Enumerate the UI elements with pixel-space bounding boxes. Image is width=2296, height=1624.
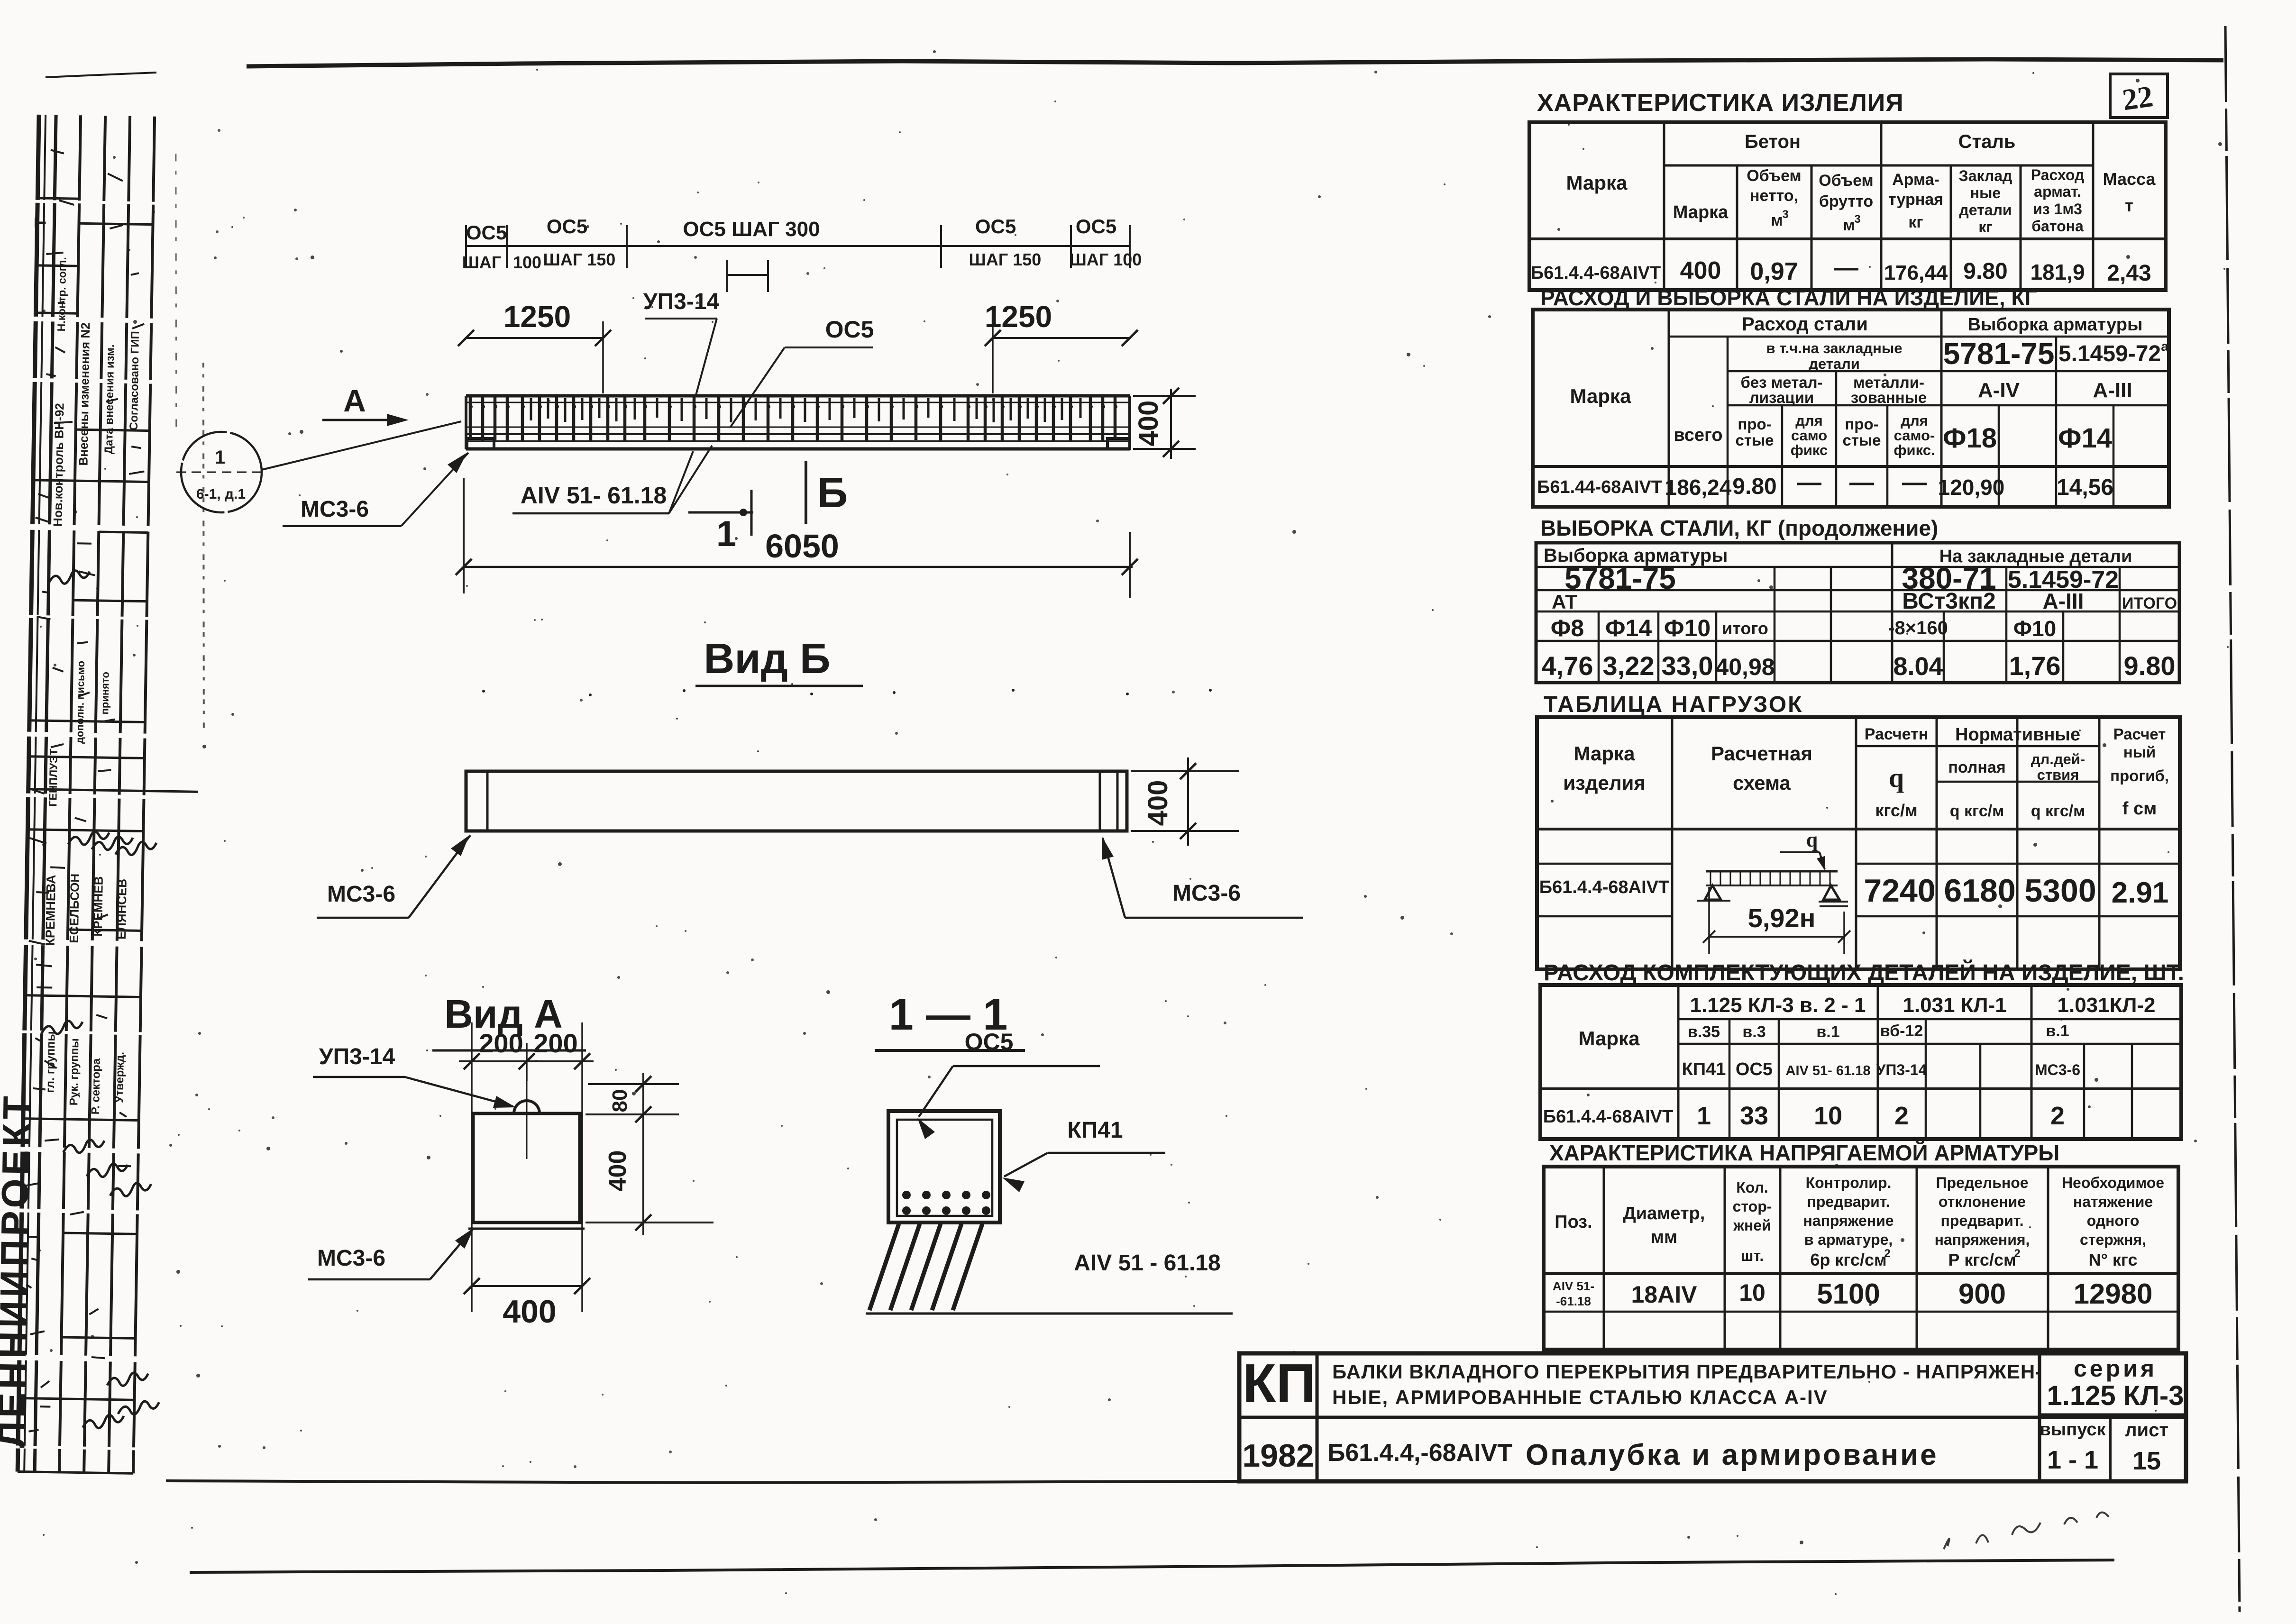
svg-text:6180: 6180 [1944, 873, 2015, 909]
svg-text:КРЕМНЕВ: КРЕМНЕВ [91, 876, 106, 937]
svg-text:Ф8: Ф8 [1551, 615, 1584, 641]
signature scribbles [68, 831, 109, 845]
svg-text:4,76: 4,76 [1542, 651, 1593, 681]
table 3 grid [1536, 543, 2179, 683]
handwritten note bottom right [1944, 1512, 2109, 1549]
svg-text:кг: кг [1908, 213, 1923, 231]
svg-text:МС3-6: МС3-6 [1172, 881, 1241, 906]
page number box 22 [2110, 74, 2168, 118]
svg-text:ОС5: ОС5 [547, 215, 587, 237]
svg-text:Марка: Марка [1579, 1027, 1640, 1049]
svg-text:лист: лист [2125, 1420, 2168, 1441]
svg-text:армат.: армат. [2034, 183, 2081, 200]
svg-text:про-: про- [1738, 415, 1771, 433]
outer bottom border line [190, 1560, 2114, 1572]
400 height dimension (elevation) [1133, 395, 1196, 397]
svg-text:в.1: в.1 [1816, 1023, 1839, 1041]
svg-text:детали: детали [1959, 201, 2012, 219]
svg-text:ствия: ствия [2037, 766, 2079, 783]
right frame border line [2225, 26, 2240, 1612]
svg-text:1.031КЛ-2: 1.031КЛ-2 [2058, 994, 2156, 1017]
svg-text:ные: ные [1970, 184, 2001, 201]
svg-text:Согласовано ГИП: Согласовано ГИП [128, 331, 142, 430]
svg-text:КП41: КП41 [1682, 1059, 1726, 1079]
svg-text:-61.18: -61.18 [1556, 1294, 1591, 1308]
svg-text:Заклад: Заклад [1959, 167, 2012, 184]
left stamp column vertical rules [18, 115, 39, 1472]
svg-text:МС3-6: МС3-6 [301, 497, 369, 522]
svg-text:ОС5: ОС5 [975, 215, 1016, 237]
400 dimension below view A [472, 1285, 582, 1287]
svg-text:ОС5: ОС5 [1076, 215, 1116, 237]
svg-text:МС3-6: МС3-6 [327, 882, 395, 907]
svg-text:2: 2 [1894, 1102, 1909, 1130]
svg-text:ОС5: ОС5 [825, 316, 874, 343]
svg-text:МС3-6: МС3-6 [317, 1246, 385, 1271]
svg-text:ВЫБОРКА СТАЛИ, КГ (продолжени: ВЫБОРКА СТАЛИ, КГ (продолжение) [1540, 516, 1938, 540]
lifting loop UP3-14 [514, 1101, 540, 1113]
svg-text:Рук. группы: Рук. группы [67, 1038, 81, 1105]
svg-text:мм: мм [1651, 1227, 1677, 1247]
svg-text:Марка: Марка [1574, 742, 1636, 765]
svg-text:1.125 КЛ-3: 1.125 КЛ-3 [2047, 1380, 2184, 1411]
svg-text:РАСХОД КОМПЛЕКТУЮЩИХ ДЕТАЛЕЙ Н: РАСХОД КОМПЛЕКТУЮЩИХ ДЕТАЛЕЙ НА ИЗДЕЛИЕ,… [1544, 959, 2184, 985]
svg-text:Ф18: Ф18 [1943, 423, 1997, 454]
svg-text:1.031 КЛ-1: 1.031 КЛ-1 [1903, 994, 2006, 1017]
svg-text:1250: 1250 [503, 300, 571, 334]
svg-text:186,24: 186,24 [1665, 475, 1732, 500]
svg-text:5.1459-72: 5.1459-72 [2058, 341, 2161, 366]
svg-text:ХАРАКТЕРИСТИКА ИЗЛЕЛИЯ: ХАРАКТЕРИСТИКА ИЗЛЕЛИЯ [1537, 89, 1904, 117]
svg-text:1982: 1982 [1242, 1438, 1314, 1474]
svg-text:Н.контр. согл.: Н.контр. согл. [55, 257, 68, 331]
svg-text:9.80: 9.80 [2124, 651, 2176, 681]
svg-text:q кгс/м: q кгс/м [1950, 802, 2004, 820]
svg-text:2: 2 [2014, 1247, 2020, 1260]
svg-text:400: 400 [503, 1294, 556, 1330]
svg-text:вб-12: вб-12 [1880, 1022, 1923, 1040]
dense text-noise dashes inside column [51, 150, 64, 153]
row of specks under title [482, 690, 485, 693]
svg-text:ШАГ 150: ШАГ 150 [969, 250, 1042, 269]
svg-text:Вид Б: Вид Б [704, 635, 830, 683]
svg-text:дополн. письмо: дополн. письмо [73, 661, 87, 744]
svg-text:А-III: А-III [2043, 589, 2084, 613]
rebar dots [902, 1191, 911, 1199]
svg-text:8.04: 8.04 [1893, 652, 1943, 681]
svg-text:стор-: стор- [1733, 1198, 1772, 1215]
svg-text:Объем: Объем [1819, 172, 1873, 190]
svg-text:176,44: 176,44 [1884, 261, 1948, 284]
table 6 grid [1544, 1167, 2178, 1350]
svg-text:для: для [1795, 412, 1822, 429]
svg-text:УП3-14: УП3-14 [643, 289, 720, 314]
svg-text:ОС5: ОС5 [965, 1029, 1014, 1055]
svg-text:6-1, д.1: 6-1, д.1 [196, 486, 246, 502]
overall 6050 dimension [464, 566, 1133, 568]
svg-text:Расчет: Расчет [2113, 725, 2166, 743]
extra speckles drawing area [243, 217, 245, 219]
svg-text:АТ: АТ [1552, 591, 1577, 613]
svg-text:АIV 51-: АIV 51- [1553, 1279, 1594, 1293]
svg-text:2: 2 [2050, 1102, 2065, 1130]
400 dimension view B [1131, 770, 1239, 772]
1250 dimension left [466, 337, 603, 339]
svg-text:стые: стые [1735, 431, 1774, 449]
svg-text:про-: про- [1845, 415, 1878, 433]
svg-text:7240: 7240 [1864, 873, 1935, 909]
svg-text:900: 900 [1958, 1278, 2006, 1310]
svg-text:Объем: Объем [1747, 167, 1801, 185]
svg-text:400: 400 [604, 1150, 631, 1192]
section outer square [888, 1111, 1000, 1223]
svg-text:1,76: 1,76 [2009, 651, 2061, 681]
svg-text:2: 2 [1884, 1247, 1890, 1260]
svg-text:дл.дей-: дл.дей- [2031, 751, 2085, 767]
svg-text:принято: принято [99, 672, 111, 715]
svg-text:ЕЛЯНСЕВ: ЕЛЯНСЕВ [114, 879, 129, 940]
embedded plate right corner [1107, 438, 1130, 449]
svg-text:ХАРАКТЕРИСТИКА НАПРЯГАЕМОЙ АРМ: ХАРАКТЕРИСТИКА НАПРЯГАЕМОЙ АРМАТУРЫ [1549, 1140, 2059, 1165]
svg-text:—: — [1902, 469, 1927, 496]
svg-text:Б: Б [817, 469, 848, 517]
svg-text:ОС5: ОС5 [466, 221, 507, 244]
svg-text:1 - 1: 1 - 1 [2047, 1446, 2098, 1474]
svg-text:Б61.4.4,-68АIVТ: Б61.4.4,-68АIVТ [1327, 1439, 1512, 1467]
svg-text:выпуск: выпуск [2040, 1420, 2106, 1440]
svg-text:Р кгс/см: Р кгс/см [1948, 1250, 2016, 1269]
svg-text:детали: детали [1809, 356, 1860, 372]
svg-text:т: т [2125, 196, 2133, 215]
svg-text:КП: КП [1243, 1352, 1316, 1414]
svg-text:33,0: 33,0 [1662, 651, 1713, 681]
svg-text:отклонение: отклонение [1939, 1193, 2026, 1210]
svg-text:N° кгс: N° кгс [2089, 1250, 2138, 1269]
svg-text:А-IV: А-IV [1978, 379, 2020, 402]
svg-text:Диаметр,: Диаметр, [1623, 1204, 1705, 1223]
svg-text:Кол.: Кол. [1736, 1179, 1768, 1196]
svg-text:ТАБЛИЦА НАГРУЗОК: ТАБЛИЦА НАГРУЗОК [1544, 692, 1803, 717]
stirrups [469, 397, 472, 440]
noisy streak right of stamp column [198, 363, 210, 728]
svg-text:фикс: фикс [1791, 442, 1828, 458]
svg-text:Бетон: Бетон [1745, 131, 1801, 152]
svg-text:—: — [1834, 254, 1858, 282]
svg-text:напряжение: напряжение [1803, 1212, 1894, 1229]
svg-text:Выборка арматуры: Выборка арматуры [1968, 315, 2143, 335]
svg-text:18АIV: 18АIV [1631, 1281, 1698, 1308]
svg-text:1.125 КЛ-3 в. 2 - 1: 1.125 КЛ-3 в. 2 - 1 [1690, 994, 1866, 1017]
svg-text:Поз.: Поз. [1555, 1212, 1592, 1232]
svg-text:одного: одного [2087, 1212, 2140, 1229]
svg-text:м: м [1771, 211, 1783, 229]
svg-text:2.91: 2.91 [2112, 876, 2169, 909]
svg-text:Сталь: Сталь [1958, 131, 2016, 152]
svg-text:турная: турная [1888, 191, 1943, 209]
svg-text:в.1: в.1 [2046, 1022, 2069, 1040]
svg-text:3,22: 3,22 [1603, 651, 1655, 681]
svg-text:Арма-: Арма- [1892, 171, 1939, 189]
svg-text:схема: схема [1733, 772, 1791, 794]
svg-text:шт.: шт. [1741, 1247, 1764, 1264]
200 200 dimension [459, 1060, 594, 1062]
svg-text:в т.ч.на закладные: в т.ч.на закладные [1766, 340, 1902, 356]
table 5 grid [1540, 985, 2181, 1139]
svg-text:Нормативные: Нормативные [1955, 725, 2080, 745]
svg-text:Расчетн: Расчетн [1865, 725, 1929, 743]
svg-text:Ф10: Ф10 [2013, 616, 2056, 641]
svg-text:напряжения,: напряжения, [1935, 1231, 2030, 1248]
svg-text:ЕСЕЛЬСОН: ЕСЕЛЬСОН [67, 874, 82, 943]
svg-text:22: 22 [2120, 79, 2155, 117]
svg-text:само: само [1791, 427, 1827, 444]
svg-text:натяжение: натяжение [2073, 1193, 2153, 1210]
OC5 spacing dimension line [466, 245, 1130, 247]
svg-text:Марка: Марка [1566, 172, 1628, 194]
svg-text:3: 3 [1854, 213, 1860, 226]
80 dimension [588, 1083, 679, 1085]
svg-text:ОС5 ШАГ 300: ОС5 ШАГ 300 [683, 218, 820, 241]
svg-text:3: 3 [1782, 208, 1788, 221]
embedded plate MC3-6 left corner [467, 438, 494, 449]
svg-text:Марка: Марка [1673, 202, 1729, 222]
prestressing strands [869, 1224, 899, 1310]
svg-text:брутто: брутто [1819, 192, 1873, 210]
svg-text:Внесены изменения N2: Внесены изменения N2 [76, 322, 93, 466]
svg-text:ШАГ: ШАГ [462, 253, 502, 272]
svg-text:Б61.44-68АIVТ: Б61.44-68АIVТ [1537, 477, 1662, 497]
400 dimension right of view A [585, 1113, 679, 1115]
svg-text:200: 200 [533, 1028, 577, 1058]
svg-text:в арматуре,: в арматуре, [1804, 1231, 1893, 1248]
svg-text:Б61.4.4-68АIVТ: Б61.4.4-68АIVТ [1539, 877, 1669, 897]
svg-text:ШАГ 100: ШАГ 100 [1070, 250, 1142, 269]
svg-text:Необходимое: Необходимое [2062, 1174, 2164, 1191]
svg-text:предварит.: предварит. [1807, 1193, 1890, 1210]
table 4 grid [1537, 717, 2180, 969]
svg-text:Ф10: Ф10 [1664, 615, 1711, 641]
svg-text:АIV 51- 61.18: АIV 51- 61.18 [1786, 1063, 1871, 1078]
svg-text:5300: 5300 [2024, 873, 2096, 909]
svg-text:фикс.: фикс. [1894, 442, 1935, 458]
beam elevation outline [466, 394, 1130, 398]
svg-text:120,90: 120,90 [1938, 475, 2005, 500]
svg-text:ШАГ 150: ШАГ 150 [543, 250, 616, 269]
svg-text:Расход стали: Расход стали [1742, 314, 1868, 335]
svg-text:КРЕМНЕВА: КРЕМНЕВА [43, 875, 58, 946]
svg-text:УП3-14: УП3-14 [319, 1044, 395, 1069]
svg-text:А: А [343, 383, 366, 418]
svg-text:—: — [1797, 469, 1821, 496]
top-left frame stub [46, 73, 156, 77]
svg-text:1: 1 [716, 514, 736, 554]
svg-text:АIV 51 - 61.18: АIV 51 - 61.18 [1074, 1250, 1221, 1276]
svg-text:12980: 12980 [2074, 1278, 2153, 1310]
extension lines view A [471, 1022, 473, 1312]
svg-text:2,43: 2,43 [2107, 261, 2151, 286]
svg-text:итого: итого [1722, 619, 1768, 638]
svg-text:АIV 51- 61.18: АIV 51- 61.18 [521, 482, 667, 509]
svg-text:УП3-14: УП3-14 [1876, 1061, 1927, 1078]
top frame border line [247, 59, 2223, 66]
svg-text:НЫЕ, АРМИРОВАННЫЕ СТАЛЬЮ: НЫЕ, АРМИРОВАННЫЕ СТАЛЬЮ КЛАССА А-IV [1332, 1386, 1828, 1408]
svg-text:10: 10 [1814, 1102, 1842, 1130]
svg-text:10: 10 [1739, 1279, 1765, 1306]
svg-text:14,56: 14,56 [2057, 475, 2113, 500]
svg-text:400: 400 [1143, 780, 1173, 826]
scheme q label [1780, 851, 1820, 853]
detail circle callout [181, 432, 262, 512]
svg-text:200: 200 [479, 1028, 523, 1058]
svg-text:полная: полная [1948, 758, 2005, 776]
svg-text:400: 400 [1133, 401, 1164, 447]
svg-text:кгс/м: кгс/м [1875, 801, 1917, 820]
svg-text:Б61.4.4-68АIVТ: Б61.4.4-68АIVТ [1531, 263, 1661, 283]
svg-text:ВСт3кп2: ВСт3кп2 [1902, 589, 1995, 614]
svg-text:33: 33 [1740, 1102, 1768, 1130]
svg-text:Т: Т [31, 218, 49, 228]
svg-text:9.80: 9.80 [1963, 259, 2007, 284]
svg-text:100: 100 [513, 253, 541, 272]
scheme supports [1705, 885, 1721, 900]
svg-text:f см: f см [2122, 799, 2157, 819]
svg-text:40,98: 40,98 [1715, 654, 1775, 680]
svg-text:80: 80 [608, 1089, 631, 1113]
svg-text:—: — [1849, 469, 1874, 496]
svg-text:Расчетная: Расчетная [1711, 742, 1812, 765]
svg-text:в.35: в.35 [1688, 1023, 1720, 1041]
strand baseline [866, 1313, 1233, 1315]
svg-text:q кгс/м: q кгс/м [2031, 802, 2085, 820]
svg-text:прогиб,: прогиб, [2110, 767, 2169, 785]
inner bottom border line [166, 1481, 1239, 1483]
svg-text:для: для [1901, 412, 1928, 429]
UP3-14 step dimension [727, 274, 768, 276]
svg-text:0,97: 0,97 [1750, 258, 1798, 285]
svg-text:1: 1 [215, 447, 225, 468]
svg-text:жней: жней [1733, 1217, 1771, 1234]
load scheme sketch [1706, 870, 1838, 873]
svg-text:5781-75: 5781-75 [1943, 337, 2055, 371]
svg-text:400: 400 [1680, 257, 1721, 284]
svg-text:Ф14: Ф14 [2058, 423, 2112, 454]
svg-text:серия: серия [2074, 1355, 2157, 1382]
svg-text:5,92н: 5,92н [1748, 903, 1816, 933]
svg-text:ГЕНПЛУЭТ: ГЕНПЛУЭТ [46, 748, 60, 806]
svg-text:лизации: лизации [1749, 389, 1814, 406]
svg-text:6050: 6050 [765, 528, 839, 565]
svg-text:стые: стые [1842, 431, 1881, 449]
section inner stirrup square [897, 1120, 992, 1216]
svg-text:-8×160: -8×160 [1888, 618, 1948, 639]
svg-text:181,9: 181,9 [2030, 260, 2085, 284]
svg-text:в.3: в.3 [1742, 1023, 1765, 1041]
svg-text:МС3-6: МС3-6 [2035, 1061, 2080, 1078]
svg-text:само-: само- [1894, 427, 1935, 444]
section marker B [805, 461, 807, 524]
svg-text:изделия: изделия [1563, 772, 1646, 794]
left stamp column separators [37, 198, 79, 199]
scan speckles [361, 869, 364, 872]
svg-text:из 1м3: из 1м3 [2033, 201, 2082, 218]
svg-text:15: 15 [2132, 1447, 2161, 1475]
svg-text:Марка: Марка [1570, 385, 1632, 407]
svg-text:нетто,: нетто, [1750, 187, 1798, 205]
svg-text:Контролир.: Контролир. [1806, 1174, 1892, 1191]
beam longitudinal bars [466, 427, 1130, 428]
svg-text:Б61.4.4-68АIVТ: Б61.4.4-68АIVТ [1543, 1107, 1673, 1127]
svg-text:КП41: КП41 [1067, 1118, 1123, 1143]
svg-text:кг: кг [1978, 219, 1992, 236]
svg-text:Утвержд.: Утвержд. [113, 1052, 127, 1103]
svg-text:9.80: 9.80 [1732, 474, 1776, 499]
svg-text:ЛЕННИИПРОЕКТ: ЛЕННИИПРОЕКТ [0, 1093, 38, 1448]
svg-text:1250: 1250 [985, 300, 1052, 334]
svg-text:Масса: Масса [2103, 169, 2156, 189]
svg-text:м: м [1843, 216, 1855, 234]
svg-text:РАСХОД И ВЫБОРКА СТАЛИ НА ИЗДЕ: РАСХОД И ВЫБОРКА СТАЛИ НА ИЗДЕЛИЕ, КГ [1540, 285, 2037, 310]
title block outline [1239, 1353, 2186, 1481]
svg-text:5781-75: 5781-75 [1564, 561, 1676, 595]
svg-text:Опалубка и армирование: Опалубка и армирование [1526, 1439, 1939, 1471]
svg-text:ИТОГО: ИТОГО [2122, 594, 2177, 612]
svg-text:стержня,: стержня, [2080, 1231, 2146, 1248]
svg-text:батона: батона [2031, 218, 2084, 235]
svg-text:ный: ный [2123, 743, 2156, 761]
svg-text:Расход: Расход [2031, 166, 2085, 183]
svg-text:а: а [2161, 339, 2168, 354]
section marker 1 (top) [688, 511, 753, 514]
svg-text:6р кгс/см: 6р кгс/см [1810, 1250, 1886, 1269]
table 2 grid [1533, 310, 2169, 507]
1250 dimension right [993, 337, 1130, 339]
svg-text:Предельное: Предельное [1936, 1174, 2028, 1191]
view A cross-section square [473, 1113, 580, 1223]
svg-text:q: q [1806, 828, 1818, 851]
svg-text:Ф14: Ф14 [1605, 615, 1652, 641]
svg-text:БАЛКИ ВКЛАДНОГО ПЕРЕКРЫТИЯ: БАЛКИ ВКЛАДНОГО ПЕРЕКРЫТИЯ ПРЕДВАРИТЕЛЬН… [1332, 1360, 2042, 1383]
svg-text:А-III: А-III [2093, 379, 2132, 402]
svg-text:q: q [1889, 762, 1904, 793]
table 1 grid [1529, 122, 2166, 290]
svg-text:ОС5: ОС5 [1736, 1059, 1773, 1079]
svg-text:зованные: зованные [1851, 389, 1927, 406]
svg-text:1: 1 [1697, 1102, 1711, 1130]
svg-text:всего: всего [1674, 425, 1722, 445]
svg-text:Р. сектора: Р. сектора [89, 1058, 103, 1115]
view B beam outline [466, 771, 1127, 831]
scheme span dimension [1709, 936, 1845, 938]
svg-text:предварит.: предварит. [1941, 1212, 2024, 1229]
